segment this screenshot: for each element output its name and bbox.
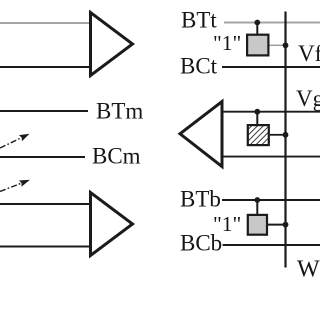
junction cell1 to read line <box>283 42 289 48</box>
svg-text:BTb: BTb <box>180 187 221 212</box>
memory cell C2 (hatched) <box>248 125 269 145</box>
svg-text:BTm: BTm <box>96 99 143 124</box>
arrow annotation lower <box>0 180 30 192</box>
wire cell1 input stub <box>256 23 258 35</box>
svg-text:BCm: BCm <box>92 144 141 169</box>
junction cell3 to read line <box>283 222 289 228</box>
svg-text:BTt: BTt <box>181 7 217 32</box>
junction on BTb <box>254 197 260 203</box>
buffer amplifier U2 bottom-left <box>91 193 133 256</box>
arrow annotation upper <box>0 134 30 148</box>
memory cell C1 (state "1") <box>247 35 268 56</box>
memory cell C3 (state "1") <box>248 215 267 235</box>
svg-text:"1": "1" <box>213 31 241 55</box>
wire into bottom buffer (bottom input) <box>0 246 90 248</box>
wire cell3 input stub <box>256 200 258 215</box>
wire mid bottom <box>222 156 320 158</box>
wire BTt left segment <box>0 22 90 24</box>
wire BCt left segment <box>0 66 90 68</box>
junction on BTt <box>254 20 260 26</box>
junction cell2 to read line <box>283 132 289 138</box>
wire BTb right segment <box>222 199 320 201</box>
wire BCb right segment <box>223 244 320 246</box>
wire BCm <box>0 156 85 158</box>
wire mid top (Vg row) <box>222 111 320 113</box>
wire BTm <box>0 110 88 112</box>
svg-text:Vfb: Vfb <box>298 41 320 66</box>
wire BCt right segment <box>222 66 320 68</box>
wire cell2 input stub <box>256 112 258 125</box>
buffer amplifier U1 top-left <box>91 13 133 76</box>
junction on mid top wire <box>254 109 260 115</box>
wire into bottom buffer (top input) <box>0 203 90 205</box>
wire cell2 output <box>270 134 286 136</box>
svg-text:BCt: BCt <box>180 54 218 79</box>
svg-text:Vg: Vg <box>296 86 320 111</box>
wire cell3 output <box>268 224 286 226</box>
sense amplifier U3 (left-pointing) <box>180 102 222 167</box>
svg-text:BCb: BCb <box>180 231 222 256</box>
wire BTt right segment <box>224 22 320 24</box>
vertical read line <box>284 12 286 268</box>
wire cell1 output <box>270 44 286 46</box>
svg-text:WL: WL <box>297 256 320 282</box>
